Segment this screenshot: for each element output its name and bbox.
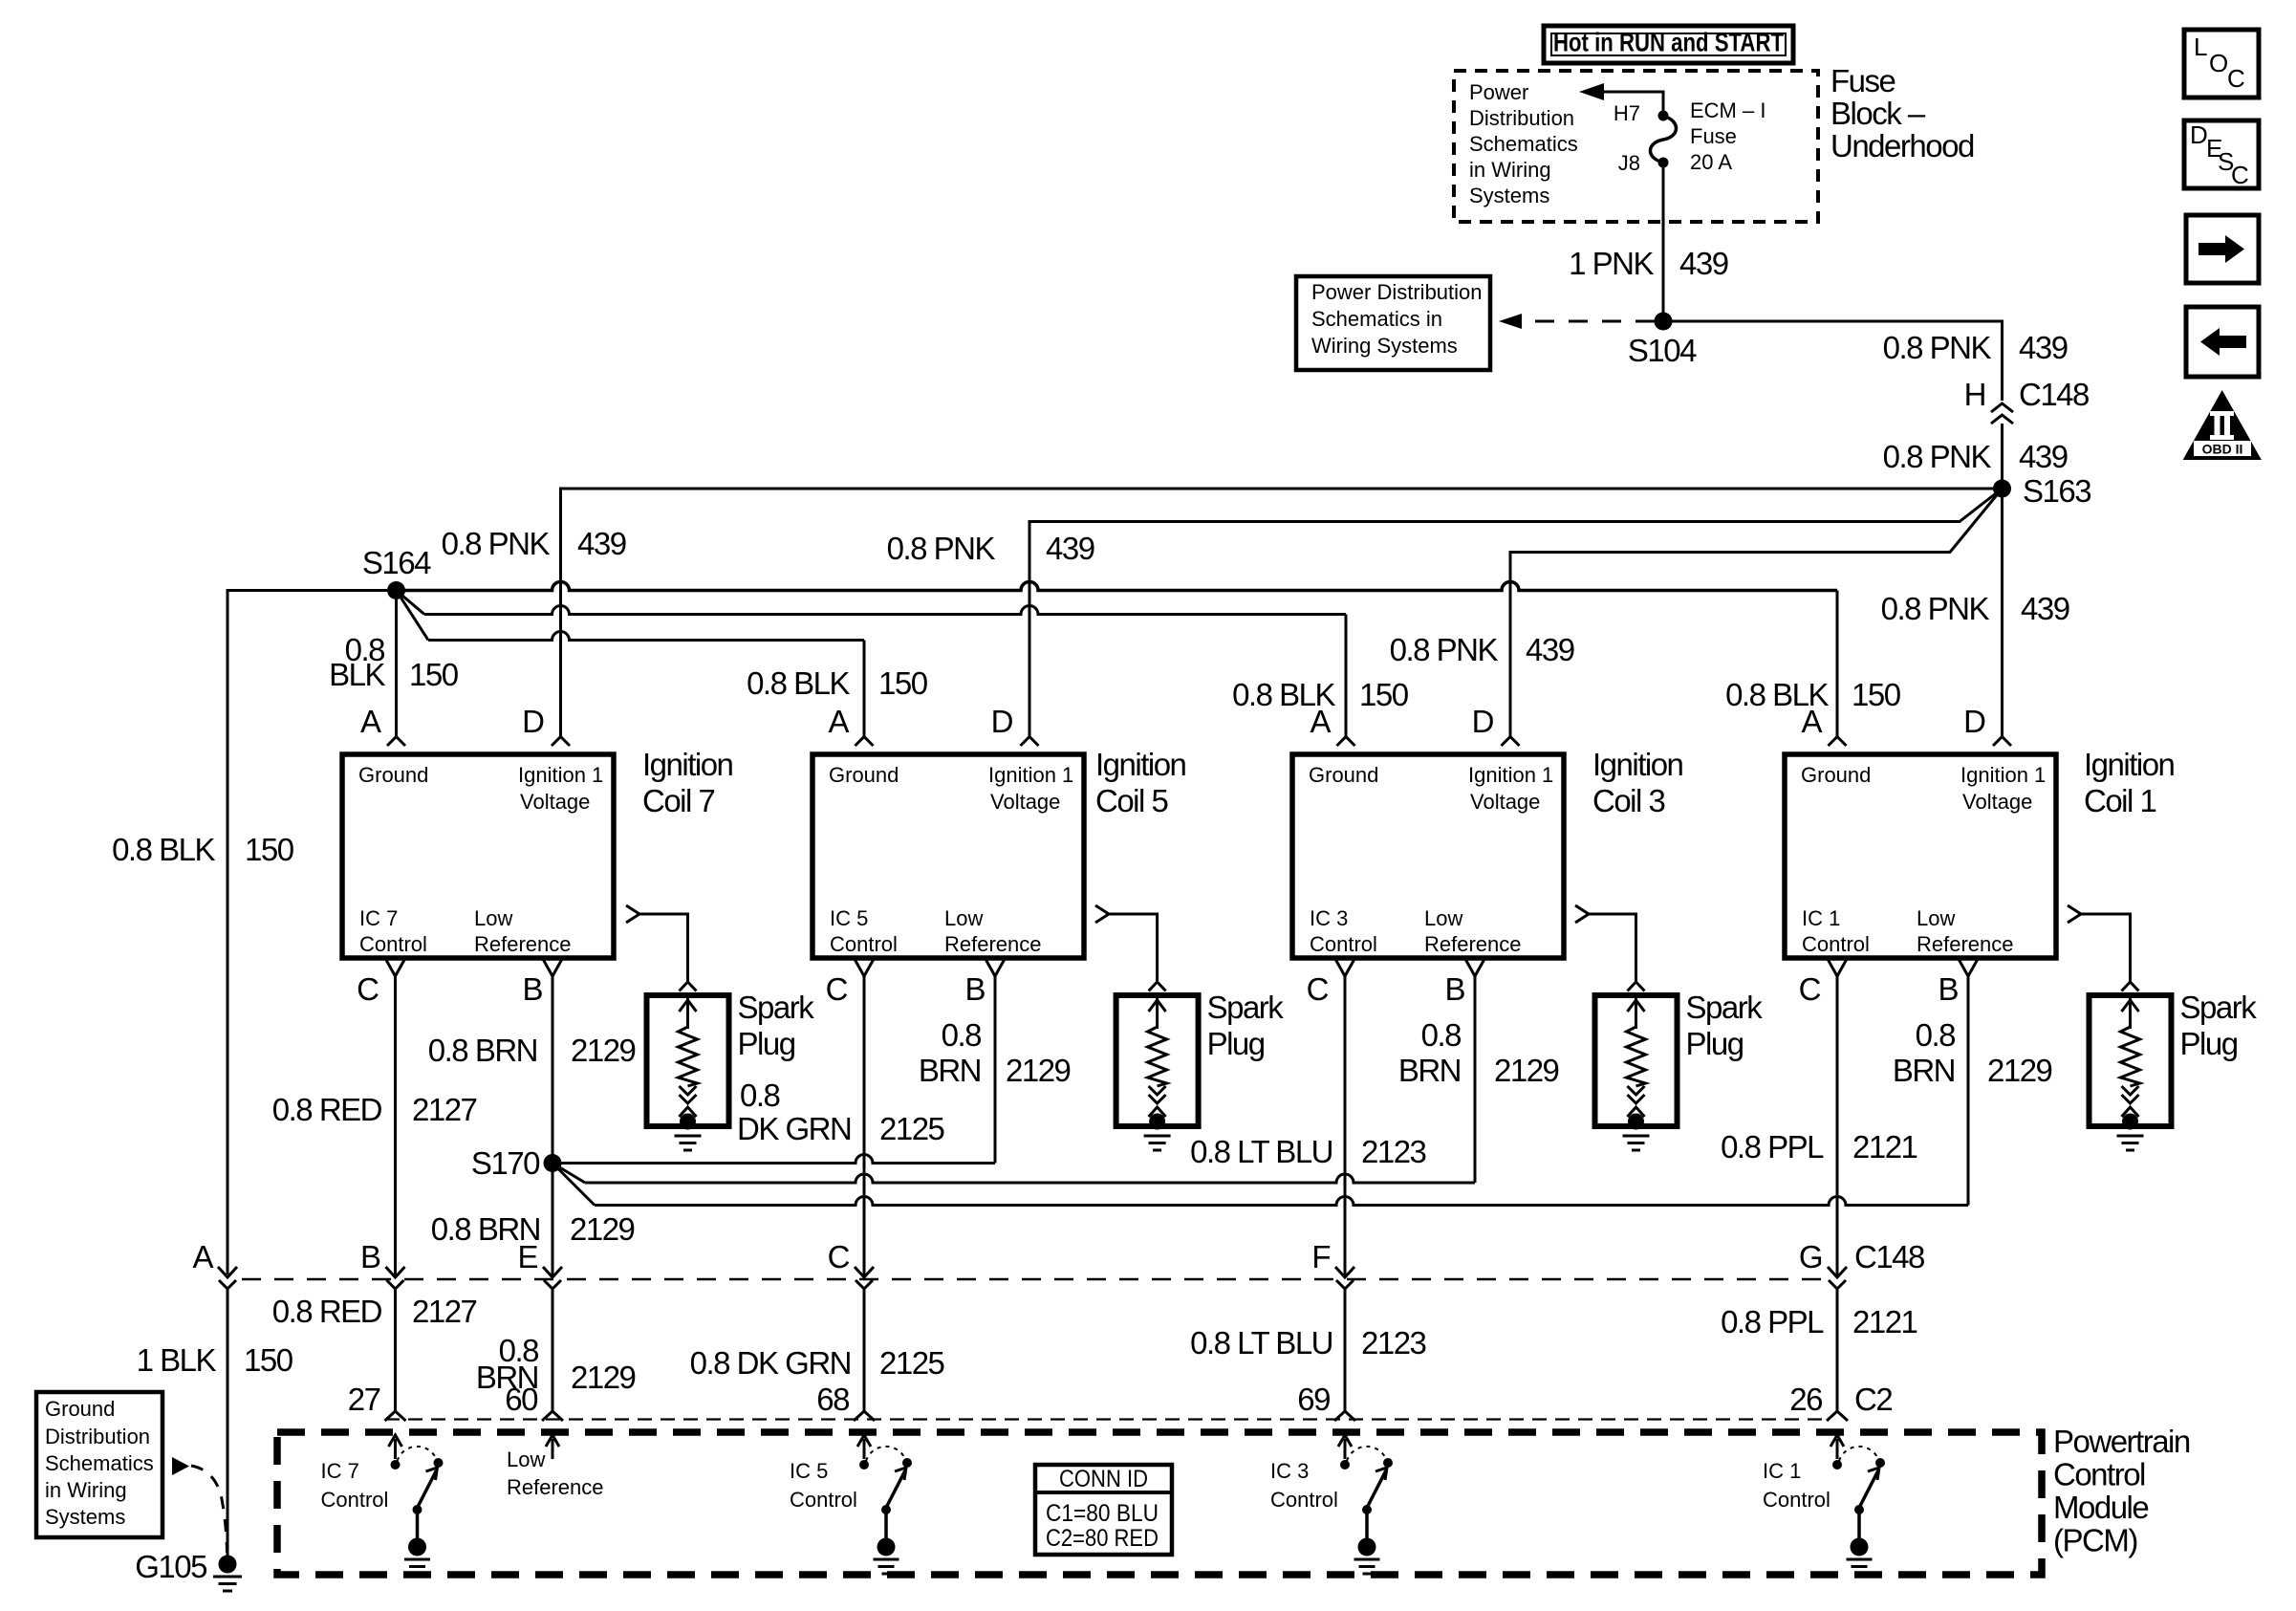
svg-text:IC 7: IC 7 [359,906,398,930]
svg-text:2123: 2123 [1361,1325,1426,1361]
ignition coil 7 box [342,754,614,958]
svg-text:2129: 2129 [571,1033,636,1068]
CONN ID table [1035,1465,1172,1555]
svg-text:0.8 PNK: 0.8 PNK [887,531,996,566]
svg-text:Reference: Reference [944,932,1042,956]
svg-text:S104: S104 [1628,333,1697,368]
spark plug 7 [647,995,729,1130]
label 1 BLK 150 (below C148) [137,1342,293,1378]
spark plug 3 ground [1623,1136,1650,1150]
svg-text:Low: Low [944,906,983,930]
svg-text:Schematics: Schematics [45,1451,154,1475]
spark plug 5 label [1207,990,1285,1061]
svg-text:Systems: Systems [1469,184,1549,207]
svg-text:1 PNK: 1 PNK [1569,246,1654,281]
svg-text:2121: 2121 [1852,1304,1917,1339]
wire S163 down to Ignition Coil 1 pin D (0.8 PNK 439) [2001,489,2004,736]
PCM IC 7 Control label [321,1459,389,1512]
PCM Low Reference input (pin 60) [552,1439,554,1459]
svg-text:27: 27 [348,1382,380,1417]
svg-text:C1=80 BLU: C1=80 BLU [1046,1500,1159,1527]
svg-text:Voltage: Voltage [1962,790,2032,814]
DESC icon box [2184,120,2259,189]
svg-text:439: 439 [577,526,626,561]
PCM IC 7 Control driver (switch to ground) [389,1435,444,1557]
svg-text:IC 5: IC 5 [830,906,868,930]
svg-text:S170: S170 [471,1145,540,1181]
label 1 PNK 439 [1569,246,1728,281]
svg-text:D: D [991,704,1013,739]
svg-text:Ground: Ground [358,763,428,787]
svg-text:0.8 LT BLU: 0.8 LT BLU [1190,1134,1332,1169]
svg-text:Ignition 1: Ignition 1 [518,763,603,787]
PCM IC 3 Control driver (switch to ground) [1338,1435,1393,1557]
back arrow icon box [2186,307,2259,377]
svg-text:69: 69 [1297,1382,1330,1417]
svg-text:Wiring Systems: Wiring Systems [1311,334,1458,358]
svg-text:Systems: Systems [45,1505,125,1529]
Hot in RUN and START header box [1544,26,1793,63]
svg-text:0.8 PNK: 0.8 PNK [1390,632,1499,667]
PCM IC 5 Control label [790,1459,857,1512]
Power Distribution Schematics in Wiring Systems note (inside fuse block) [1469,80,1578,207]
svg-text:C: C [828,1239,850,1274]
svg-text:C2=80 RED: C2=80 RED [1046,1525,1159,1552]
svg-text:Ignition: Ignition [1592,747,1683,782]
wire J8 to S104 (1 PNK 439) [1662,163,1665,321]
svg-text:Module: Module [2053,1490,2148,1525]
svg-text:G105: G105 [135,1549,206,1584]
svg-text:0.8 BLK: 0.8 BLK [112,832,215,867]
svg-text:Plug: Plug [738,1026,795,1061]
wire to PCM below C148 [1836,1289,1839,1412]
spark plug 1 [2090,995,2172,1130]
wire S170 to coil 5 pin B [552,1155,995,1164]
PCM IC 1 driver ground [1847,1559,1873,1574]
spark plug 3 [1595,995,1678,1130]
svg-text:IC 5: IC 5 [790,1459,828,1483]
svg-text:C148: C148 [2019,377,2089,412]
svg-text:Control: Control [359,932,427,956]
svg-text:2127: 2127 [412,1092,477,1127]
svg-text:Distribution: Distribution [1469,106,1574,130]
svg-text:60: 60 [505,1382,538,1417]
label 0.8 RED 2127 (below C148) [272,1294,477,1329]
svg-text:0.8 RED: 0.8 RED [272,1092,382,1127]
splice S104 [1655,313,1673,331]
connector C2 dashed line [385,1418,1829,1420]
svg-text:Low: Low [474,906,512,930]
svg-text:2121: 2121 [1852,1129,1917,1165]
svg-text:Plug: Plug [1686,1026,1744,1061]
svg-text:439: 439 [1526,632,1574,667]
ignition coil 5 box [812,754,1084,958]
svg-text:A: A [828,704,849,739]
svg-text:Plug: Plug [1207,1026,1265,1061]
svg-text:ECM – I: ECM – I [1690,98,1765,122]
svg-text:20 A: 20 A [1690,150,1732,174]
svg-text:439: 439 [1679,246,1728,281]
Fuse Block - Underhood dashed box [1454,71,1818,222]
svg-text:Coil 7: Coil 7 [642,783,715,818]
PCM IC 1 Control driver (switch to ground) [1830,1435,1885,1557]
Ground Distribution Schematics in Wiring Systems reference box [36,1392,162,1537]
svg-text:2123: 2123 [1361,1134,1426,1169]
svg-text:Control: Control [790,1488,857,1512]
svg-text:0.8: 0.8 [1916,1017,1956,1053]
wire from fuse H7 terminal with left arrow [1602,92,1663,116]
in-line connector C148 chevrons (pin H) [1991,403,2013,424]
svg-text:Ignition: Ignition [2084,747,2175,782]
svg-text:E: E [517,1239,537,1274]
svg-text:Power: Power [1469,80,1528,104]
svg-text:in Wiring: in Wiring [45,1478,127,1502]
svg-text:BRN: BRN [1893,1053,1955,1088]
svg-text:Control: Control [321,1488,389,1512]
wire coil 3 pin C to PCM pin 69 (0.8 LT BLU 2123) [1344,976,1347,1275]
svg-text:CONN ID: CONN ID [1059,1466,1148,1492]
svg-text:2129: 2129 [1987,1053,2052,1088]
wire coil 5 pin C to PCM pin 68 (0.8 DK GRN 2125) [863,976,866,1275]
svg-text:G: G [1799,1239,1822,1274]
spark plug 7 ground [675,1136,702,1150]
svg-text:2125: 2125 [879,1111,944,1146]
svg-text:2129: 2129 [1494,1053,1559,1088]
svg-text:D: D [1963,704,1985,739]
svg-text:Coil 5: Coil 5 [1095,783,1168,818]
wire S104 right and down to connector C148 pin H [1663,321,2003,401]
ignition coil 5 name label [1095,747,1186,818]
svg-text:0.8 BLK: 0.8 BLK [747,665,850,701]
ground G105 [219,1556,237,1574]
spark plug 1 ground [2117,1136,2144,1150]
svg-text:O: O [2209,49,2228,77]
svg-text:B: B [360,1239,380,1274]
svg-text:Ignition: Ignition [642,747,733,782]
svg-text:0.8 PNK: 0.8 PNK [1881,591,1990,626]
svg-text:0.8 LT BLU: 0.8 LT BLU [1190,1325,1332,1361]
svg-text:IC 1: IC 1 [1802,906,1840,930]
svg-text:Low: Low [507,1448,545,1471]
svg-text:Low: Low [1917,906,1955,930]
forward arrow icon box [2186,215,2259,283]
svg-text:Voltage: Voltage [990,790,1060,814]
wire to PCM below C148 [1344,1289,1347,1412]
svg-text:439: 439 [2019,439,2068,474]
label 0.8 BRN 2129 below S170 [431,1211,635,1247]
wire S164 down to Ignition Coil 7 pin A (0.8 BLK 150) [395,591,398,737]
svg-text:IC 3: IC 3 [1310,906,1348,930]
svg-text:Underhood: Underhood [1830,128,1974,163]
svg-text:C: C [357,971,379,1007]
PCM IC 3 driver ground [1354,1559,1380,1574]
ignition coil 3 name label [1592,747,1683,818]
OBD II triangle icon [2183,390,2262,460]
label 0.8 PPL 2121 (below C148) [1721,1304,1917,1339]
svg-text:BRN: BRN [919,1053,981,1088]
svg-text:Low: Low [1424,906,1462,930]
svg-text:Spark: Spark [1686,990,1764,1025]
svg-text:C: C [2231,161,2249,189]
svg-text:2125: 2125 [879,1345,944,1381]
svg-text:Voltage: Voltage [1470,790,1540,814]
svg-text:F: F [1311,1239,1330,1274]
svg-text:0.8 RED: 0.8 RED [272,1294,382,1329]
connector C148 dashed line [242,1278,1829,1281]
ignition coil 1 box [1785,754,2056,958]
svg-text:OBD II: OBD II [2202,442,2243,457]
wire S170 to coil 3 pin B [552,1164,585,1184]
LOC icon box [2184,30,2259,98]
wire to PCM below C148 [394,1289,397,1412]
svg-text:Distribution: Distribution [45,1425,150,1448]
ECM-I fuse value label [1690,98,1765,174]
wire coil 1 to spark plug (secondary) [2068,905,2081,923]
Fuse Block - Underhood label [1830,63,1974,163]
svg-text:Ignition 1: Ignition 1 [988,763,1073,787]
svg-text:IC 1: IC 1 [1763,1459,1801,1483]
wire coil 7 to spark plug (secondary) [626,905,639,923]
svg-text:C: C [1799,971,1821,1007]
label 0.8 BRN 2129 (below C148) [476,1333,636,1395]
svg-text:Schematics in: Schematics in [1311,307,1442,331]
svg-text:(PCM): (PCM) [2053,1523,2137,1558]
svg-text:D: D [522,704,544,739]
svg-text:Ignition 1: Ignition 1 [1468,763,1553,787]
wire C148 H to S163 (0.8 PNK 439) [2001,424,2004,489]
svg-text:150: 150 [409,657,459,692]
svg-text:Coil 3: Coil 3 [1592,783,1665,818]
svg-text:D: D [1472,704,1494,739]
connector C148 pin H label [1964,377,2089,412]
wire to PCM below C148 [552,1289,554,1412]
svg-text:Reference: Reference [1917,932,2014,956]
svg-text:C: C [2227,64,2245,93]
PCM IC 7 driver ground [404,1559,430,1574]
svg-text:A: A [192,1239,213,1274]
svg-text:Ground: Ground [45,1397,115,1421]
ignition coil 3 box [1292,754,1564,958]
wire to PCM below C148 [863,1289,866,1412]
svg-text:B: B [522,971,542,1007]
svg-text:H7: H7 [1614,101,1640,125]
splice S170 [544,1154,562,1172]
wire coil 7 pin B down to splice S170 (0.8 BRN 2129) [552,976,554,1275]
svg-text:0.8 DK GRN: 0.8 DK GRN [690,1345,851,1381]
svg-text:A: A [1801,704,1822,739]
svg-text:IC 3: IC 3 [1270,1459,1309,1483]
svg-text:0.8 PNK: 0.8 PNK [1883,439,1992,474]
dashed reference arrow to G105 [172,1457,189,1475]
svg-text:Ignition: Ignition [1095,747,1186,782]
svg-text:B: B [964,971,985,1007]
PCM IC 1 Control label [1763,1459,1830,1512]
svg-text:2129: 2129 [571,1360,636,1395]
svg-text:439: 439 [2021,591,2069,626]
wire S163 to Ignition Coil 5 pin D (0.8 PNK 439) [1029,489,2003,736]
Powertrain Control Module (PCM) dashed box [277,1432,2042,1575]
svg-text:Control: Control [2053,1457,2145,1492]
svg-text:26: 26 [1789,1382,1822,1417]
svg-text:C2: C2 [1854,1382,1892,1417]
wire S164 left and down to G105 (0.8 BLK 150) [227,591,397,1275]
svg-text:Fuse: Fuse [1830,63,1895,98]
svg-text:Powertrain: Powertrain [2053,1424,2190,1459]
svg-text:0.8 PPL: 0.8 PPL [1721,1129,1824,1165]
wire coil 1 pin C to PCM pin 26 (0.8 PPL 2121) [1836,976,1839,1275]
svg-text:0.8 PPL: 0.8 PPL [1721,1304,1824,1339]
svg-text:150: 150 [1359,677,1409,712]
PCM IC 3 Control label [1270,1459,1338,1512]
wire G105 ground leg below C148 [227,1289,229,1556]
svg-text:B: B [1444,971,1464,1007]
svg-text:Control: Control [1763,1488,1830,1512]
svg-text:C148: C148 [1854,1239,1924,1274]
svg-text:BLK: BLK [329,657,385,692]
svg-text:A: A [1310,704,1331,739]
wire coil 7 pin C to PCM pin 27 (0.8 RED 2127) [394,976,397,1275]
svg-text:Schematics: Schematics [1469,132,1578,156]
svg-text:B: B [1938,971,1958,1007]
svg-text:2127: 2127 [412,1294,477,1329]
spark plug 3 label [1686,990,1764,1061]
Power Distribution Schematics in Wiring Systems reference box [1296,276,1490,370]
svg-text:in Wiring: in Wiring [1469,158,1551,182]
svg-text:0.8: 0.8 [1421,1017,1462,1053]
svg-text:0.8 PNK: 0.8 PNK [1883,330,1992,365]
svg-text:J8: J8 [1618,151,1640,175]
svg-text:0.8 BRN: 0.8 BRN [428,1033,537,1068]
spark plug 1 label [2180,990,2258,1061]
svg-text:Spark: Spark [1207,990,1285,1025]
svg-text:68: 68 [816,1382,849,1417]
svg-text:150: 150 [878,665,928,701]
wire S164 branch to Ignition Coil 5 pin A (0.8 BLK 150) [397,591,429,641]
spark plug 5 ground [1144,1136,1171,1150]
svg-text:Voltage: Voltage [520,790,590,814]
dashed reference arrow from S104 to Power Distribution Schematics box [1535,320,1655,323]
spark plug 7 label [738,990,815,1061]
svg-text:150: 150 [245,832,294,867]
svg-text:IC 7: IC 7 [321,1459,359,1483]
ignition coil 7 name label [642,747,733,818]
fuse F ECM-I 20A (terminals H7/J8) [1650,111,1676,168]
Powertrain Control Module (PCM) label [2053,1424,2190,1558]
svg-text:Reference: Reference [1424,932,1522,956]
wire coil 3 to spark plug (secondary) [1575,905,1589,923]
svg-text:Control: Control [1802,932,1870,956]
svg-text:Spark: Spark [2180,990,2258,1025]
wire S164 main bus to Ignition Coil 1 pin A (0.8 BLK 150) [397,582,1838,591]
label 0.8 DK GRN 2125 (below C148) [690,1345,944,1381]
label 0.8 PNK 439 (above C148) [1883,330,2068,365]
svg-text:0.8: 0.8 [740,1078,780,1113]
svg-text:Plug: Plug [2180,1026,2238,1061]
svg-text:S163: S163 [2023,473,2090,509]
svg-text:A: A [360,704,381,739]
svg-text:C: C [1307,971,1329,1007]
svg-text:Reference: Reference [474,932,572,956]
svg-text:Fuse: Fuse [1690,124,1737,148]
svg-text:2129: 2129 [1006,1053,1071,1088]
svg-text:D: D [2190,120,2208,149]
wire S163 to Ignition Coil 3 pin D (0.8 PNK 439) [1510,489,2003,736]
svg-text:Hot in RUN and START: Hot in RUN and START [1553,28,1784,57]
wire S163 to Ignition Coil 7 pin D (0.8 PNK 439) [561,489,2003,736]
PCM IC 5 driver ground [874,1559,899,1574]
svg-text:Block –: Block – [1830,96,1926,131]
ignition coil 1 name label [2084,747,2175,818]
svg-text:Ground: Ground [1309,763,1378,787]
svg-text:Power Distribution: Power Distribution [1311,280,1483,304]
svg-text:0.8: 0.8 [942,1017,982,1053]
svg-text:H: H [1964,377,1985,412]
svg-text:Coil 1: Coil 1 [2084,783,2156,818]
PCM IC 5 Control driver (switch to ground) [857,1435,912,1557]
svg-text:Reference: Reference [507,1475,604,1499]
svg-text:C: C [826,971,848,1007]
svg-text:150: 150 [1852,677,1901,712]
label 0.8 LT BLU 2123 (below C148) [1190,1325,1425,1361]
svg-text:439: 439 [2019,330,2068,365]
svg-text:Control: Control [1270,1488,1338,1512]
wire coil 5 to spark plug (secondary) [1095,905,1109,923]
svg-text:Control: Control [1310,932,1377,956]
splice S164 [387,581,405,599]
svg-text:Ignition 1: Ignition 1 [1960,763,2046,787]
wire S164 branch to Ignition Coil 3 pin A (0.8 BLK 150) [397,591,425,615]
svg-text:439: 439 [1046,531,1094,566]
svg-text:BRN: BRN [1398,1053,1461,1088]
wire S170 to coil 1 pin B [552,1164,595,1206]
splice S163 [1993,480,2011,498]
svg-text:2129: 2129 [570,1211,635,1247]
svg-text:L: L [2194,33,2207,61]
svg-text:S164: S164 [362,545,431,580]
svg-text:Ground: Ground [829,763,899,787]
svg-text:Control: Control [830,932,898,956]
spark plug 5 [1116,995,1199,1130]
svg-text:150: 150 [244,1342,293,1378]
svg-text:Ground: Ground [1801,763,1871,787]
svg-text:1 BLK: 1 BLK [137,1342,217,1378]
svg-text:Spark: Spark [738,990,815,1025]
svg-text:0.8 PNK: 0.8 PNK [442,526,551,561]
svg-text:DK GRN: DK GRN [737,1111,851,1146]
